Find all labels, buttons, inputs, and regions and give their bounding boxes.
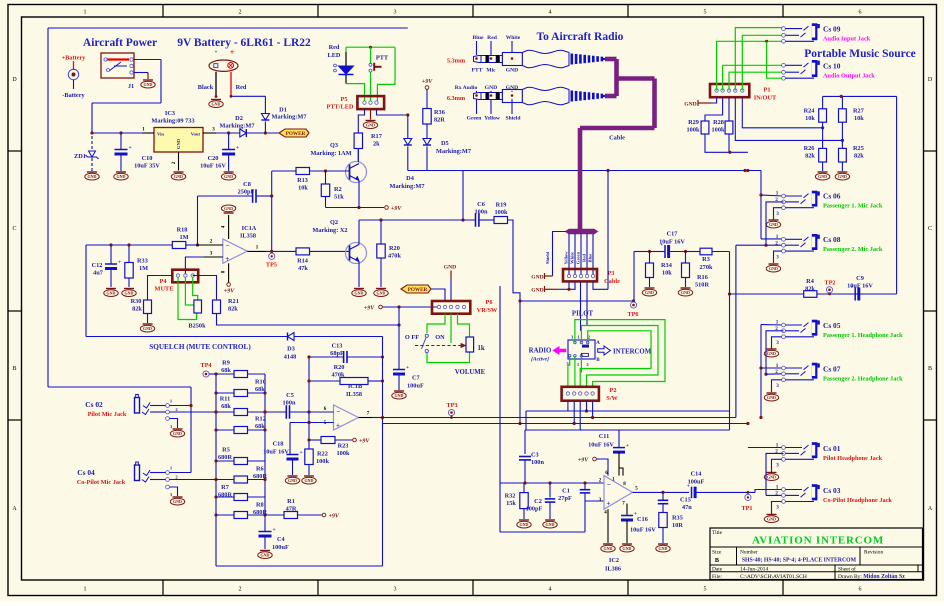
IC1A pin8 +9V (228, 263, 230, 282)
svg-text:ON: ON (435, 334, 445, 341)
svg-text:GND: GND (261, 553, 270, 558)
audio rail y=220 (359, 219, 475, 221)
svg-text:Marking: 1AM: Marking: 1AM (310, 150, 351, 157)
svg-text:Marking:M7: Marking:M7 (220, 123, 255, 130)
resistor R34 (649, 252, 651, 264)
svg-text:Cs 06: Cs 06 (823, 192, 841, 201)
svg-text:GND: GND (107, 291, 116, 296)
svg-text:−: − (607, 481, 611, 489)
svg-text:PILOT: PILOT (572, 311, 594, 318)
green wires P1 to music jacks (717, 41, 784, 90)
wire IC1A output (247, 250, 266, 252)
svg-text:D1: D1 (279, 107, 287, 114)
svg-text:SHS-40; HS-40; SP-4; 4-PLACE: SHS-40; HS-40; SP-4; 4-PLACE INTERCOM (742, 558, 857, 564)
svg-text:Sheet of: Sheet of (838, 566, 856, 573)
svg-text:IC3: IC3 (165, 110, 175, 117)
wires P3 pins34 down to switch (580, 282, 582, 331)
resistor R27 (841, 96, 843, 108)
svg-text:TP6: TP6 (627, 311, 638, 318)
svg-text:100pF: 100pF (526, 506, 543, 513)
svg-text:White: White (570, 252, 575, 264)
test point TP1 (746, 491, 749, 494)
diode D2 (240, 129, 247, 137)
svg-text:J1: J1 (128, 83, 134, 90)
svg-text:IC2: IC2 (609, 557, 619, 564)
svg-text:10uF 16V: 10uF 16V (200, 163, 226, 170)
wire P5 pin3 to PTT rail (377, 109, 408, 115)
svg-text:680R: 680R (218, 454, 232, 461)
svg-text:R14: R14 (297, 258, 309, 265)
wire green LED to P5 pin1 (346, 84, 365, 101)
svg-text:+: + (626, 443, 629, 449)
svg-text:100k: 100k (316, 458, 329, 465)
svg-text:IL358: IL358 (240, 233, 256, 240)
box bottom IC2 (500, 531, 585, 533)
svg-text:3: 3 (776, 463, 779, 469)
gnd label P1 pin1 (712, 97, 717, 103)
op-amp IC2 (604, 476, 633, 510)
ground C18 (288, 475, 298, 477)
wire right bus down to C9 line (896, 96, 898, 294)
svg-text:[Active]: [Active] (531, 357, 549, 363)
svg-text:10k: 10k (854, 115, 864, 122)
zener ZD1 (91, 136, 93, 150)
svg-text:GND: GND (173, 499, 182, 504)
squelch box bottom (216, 565, 383, 567)
svg-text:MUTE: MUTE (155, 286, 174, 293)
resistor R26 (819, 148, 827, 162)
wire C8 to R18 node (197, 196, 199, 245)
svg-text:B: B (596, 357, 600, 363)
svg-text:GND: GND (769, 266, 778, 271)
svg-text:1: 1 (776, 442, 779, 448)
ground Q2 (354, 288, 364, 290)
svg-text:D: D (12, 77, 17, 83)
ground C2 (545, 519, 555, 521)
svg-text:Cs 07: Cs 07 (823, 365, 841, 374)
ground C7 (394, 390, 404, 392)
wire Cs04 pin2 (170, 479, 217, 481)
wire Cs02 pin3 gnd (170, 419, 178, 429)
svg-text:9V Battery - 6LR61 - LR22: 9V Battery - 6LR61 - LR22 (177, 37, 311, 49)
wire rail drop to audio line (462, 171, 464, 221)
svg-text:1k: 1k (478, 345, 485, 352)
wire squelch out (383, 423, 748, 425)
svg-text:Red: Red (329, 44, 340, 51)
wire Q2 collector to audio rail (358, 220, 360, 245)
phone plug body (474, 56, 482, 63)
svg-text:Midon Zoltán Sz: Midon Zoltán Sz (863, 574, 905, 580)
svg-text:68k: 68k (221, 367, 231, 374)
svg-text:R32: R32 (505, 493, 516, 500)
wires P2 pins down (567, 401, 569, 411)
wire P1 pin4 to R27 net (735, 97, 842, 140)
svg-text:1M: 1M (179, 234, 188, 241)
border row ticks and letters (8, 150, 22, 152)
svg-text:R26: R26 (804, 145, 815, 152)
cable to radio (thick) (605, 57, 617, 62)
svg-text:R2: R2 (334, 186, 342, 193)
wire Cs04 pin3 gnd (170, 487, 178, 496)
ground ZD1 (87, 171, 97, 173)
resistor R13 (296, 168, 310, 175)
phone plug body (474, 93, 482, 100)
svg-text:+: + (687, 484, 690, 490)
wire R3 to headphone bus (712, 251, 730, 253)
svg-text:270k: 270k (700, 264, 713, 271)
wire Q2 emitter to ground (358, 262, 360, 287)
green P4 pot wires (178, 277, 197, 319)
svg-text:100k: 100k (495, 209, 508, 216)
wire R19 to radio path (508, 220, 521, 424)
svg-text:Red: Red (582, 254, 587, 262)
svg-text:C: C (12, 226, 16, 232)
svg-text:Vout: Vout (191, 132, 201, 137)
svg-text:68k: 68k (255, 386, 265, 393)
svg-text:R3: R3 (702, 256, 710, 263)
svg-text:Revision: Revision (864, 550, 883, 556)
svg-text:100uF: 100uF (407, 383, 424, 390)
capacitor C2 (549, 483, 551, 498)
svg-text:VR/SW: VR/SW (477, 307, 498, 314)
svg-text:10uF 16V: 10uF 16V (588, 442, 614, 449)
svg-text:Red: Red (236, 84, 247, 91)
svg-text:100k: 100k (712, 127, 725, 134)
wire IC1B output (359, 417, 373, 419)
svg-text:100n: 100n (531, 459, 544, 466)
svg-text:1: 1 (776, 319, 779, 325)
svg-text:6: 6 (859, 10, 862, 16)
dashed wiper link (415, 345, 461, 347)
svg-text:R9: R9 (222, 360, 230, 367)
svg-text:R20: R20 (389, 245, 400, 252)
wire rail to TP5 node (271, 171, 273, 251)
jack Cs 03 (755, 490, 784, 493)
svg-text:C18: C18 (273, 441, 284, 448)
svg-text:Portable Music Source: Portable Music Source (804, 48, 916, 60)
wire Cs03 pin3 gnd (772, 502, 782, 510)
connector P6 (432, 301, 470, 314)
resistor R20 (380, 220, 382, 244)
resistor R16 (685, 252, 687, 264)
+9V at Q3 (385, 206, 389, 210)
svg-text:1: 1 (776, 190, 779, 196)
svg-text:SQUELCH (MUTE CONTROL): SQUELCH (MUTE CONTROL) (149, 343, 251, 351)
green P6 switch loop (427, 314, 445, 333)
svg-text:10k: 10k (298, 185, 308, 192)
wire volume feed line (730, 293, 804, 295)
wire rail to passenger mic pin1 chain (760, 171, 762, 239)
svg-text:GND: GND (838, 174, 847, 179)
svg-text:P2: P2 (610, 387, 617, 394)
svg-text:Yellow: Yellow (564, 251, 569, 265)
wire green right leg to P5 pin3 (377, 47, 395, 101)
jack Cs 08 (761, 238, 784, 240)
jack Cs 02 plug (135, 398, 140, 414)
border column ticks and numbers (162, 5, 164, 18)
svg-text:+: + (225, 255, 229, 263)
svg-text:2: 2 (775, 491, 778, 497)
svg-text:GND: GND (224, 174, 233, 179)
svg-text:GND: GND (684, 102, 696, 108)
wire inverting bus (308, 357, 310, 450)
ground C16 (622, 543, 632, 545)
svg-text:+: + (406, 365, 409, 371)
svg-text:1M: 1M (139, 265, 148, 272)
wire green PTT to P5 pin2 (370, 72, 372, 101)
svg-text:C4: C4 (277, 536, 286, 543)
resistor R14 (296, 248, 310, 255)
wire +9V down to C7 (398, 307, 400, 370)
svg-text:TP1: TP1 (741, 505, 752, 512)
wire left box edge (499, 286, 501, 532)
switch S1 pilot (568, 340, 595, 359)
svg-text:4: 4 (549, 10, 552, 16)
svg-text:Vin: Vin (157, 132, 164, 137)
wire P4 pin1 left (148, 276, 173, 301)
wire battery minus to ground (215, 72, 217, 97)
wire J1 to IC3 (134, 59, 161, 61)
svg-text:PTT: PTT (376, 55, 389, 62)
wire Cs07 pin3 gnd (772, 380, 782, 387)
svg-text:IC1B: IC1B (348, 383, 363, 390)
green switch loops (575, 320, 665, 387)
svg-text:Marking:09 733: Marking:09 733 (151, 118, 194, 125)
svg-text:Co-Pilot Mic Jack: Co-Pilot Mic Jack (77, 479, 126, 486)
jack Cs 07 (761, 367, 784, 369)
svg-text:82k: 82k (805, 153, 815, 160)
svg-text:R33: R33 (137, 258, 148, 265)
resistor R32 (523, 483, 525, 493)
potentiometer B250k (194, 300, 202, 313)
wire main audio out (383, 417, 736, 419)
svg-text:100uF: 100uF (272, 544, 289, 551)
wire mic sum to pin6 (216, 411, 286, 413)
svg-text:+9V: +9V (364, 306, 375, 312)
ground C10 (116, 171, 126, 173)
svg-text:C: C (928, 226, 932, 232)
svg-text:Yellow: Yellow (484, 116, 501, 122)
svg-text:10k: 10k (805, 115, 815, 122)
resistor R25 (839, 148, 847, 162)
svg-text:S/W: S/W (606, 395, 618, 402)
svg-text:100n: 100n (475, 209, 488, 216)
svg-text:Date: Date (712, 567, 723, 573)
svg-text:+: + (118, 260, 121, 266)
svg-text:GND: GND (681, 290, 690, 295)
svg-text:+: + (607, 499, 611, 507)
capacitor C20 (228, 133, 230, 150)
resistor R4 (804, 291, 817, 298)
svg-text:51k: 51k (334, 194, 344, 201)
svg-text:Passenger 2. Mic Jack: Passenger 2. Mic Jack (823, 246, 883, 253)
svg-text:P6: P6 (486, 299, 493, 306)
wire IC2 pin4 gnd (607, 509, 609, 543)
wire battery plus (230, 72, 232, 97)
svg-text:D5: D5 (441, 140, 449, 147)
ground J1 (143, 79, 153, 81)
capacitor C4 (259, 531, 272, 533)
svg-text:Co-Pilot Headphone Jack: Co-Pilot Headphone Jack (823, 497, 892, 504)
svg-text:GND: GND (531, 288, 543, 294)
svg-text:Audio Output Jack: Audio Output Jack (823, 73, 875, 80)
title block frame (710, 528, 923, 580)
wire P5 pin2 to ground (370, 109, 372, 120)
svg-text:-Battery: -Battery (62, 92, 85, 99)
svg-text:Cs 04: Cs 04 (77, 468, 95, 477)
svg-text:R13: R13 (297, 177, 308, 184)
svg-text:R34: R34 (661, 262, 673, 269)
svg-text:PTT/LED: PTT/LED (327, 104, 354, 111)
svg-text:15k: 15k (506, 500, 516, 507)
wire pin3 line (585, 500, 604, 502)
wire Q3 collector (357, 149, 359, 163)
wire PTT power rail (408, 170, 761, 172)
capacitor C3 (524, 430, 526, 454)
wire P1 pin2 to R29 (705, 97, 723, 121)
diode D1 (264, 96, 266, 113)
svg-text:D4: D4 (406, 175, 415, 182)
svg-text:3: 3 (776, 211, 779, 217)
svg-text:−: − (226, 242, 230, 250)
potentiometer 1k (466, 337, 474, 352)
wire J1 pin3 to ground (134, 72, 148, 74)
svg-text:D2: D2 (235, 115, 243, 122)
ground R30 (143, 323, 153, 325)
ground battery (211, 99, 221, 101)
svg-text:GND: GND (377, 291, 386, 296)
ground IC3 (174, 171, 184, 173)
svg-text:IC1A: IC1A (242, 225, 257, 232)
svg-text:R11: R11 (220, 396, 231, 403)
svg-text:INTERCOM: INTERCOM (613, 349, 652, 356)
svg-text:GND: GND (767, 475, 776, 480)
wire pin2 chain Cs05 Cs07 (766, 331, 784, 374)
svg-text:R20: R20 (334, 364, 345, 371)
svg-text:GND: GND (88, 174, 97, 179)
svg-text:2: 2 (239, 10, 242, 16)
svg-text:1: 1 (776, 234, 779, 240)
ground R22 (304, 475, 314, 477)
svg-text:GND: GND (395, 393, 404, 398)
svg-text:Cs 09: Cs 09 (823, 25, 841, 34)
svg-text:10k: 10k (662, 270, 672, 277)
connector P4 (172, 270, 198, 283)
diode D5 (426, 124, 428, 139)
svg-text:+: + (660, 242, 663, 248)
svg-text:C9: C9 (856, 275, 864, 282)
svg-text:Cable: Cable (604, 278, 620, 285)
svg-text:Cable: Cable (609, 135, 625, 142)
svg-text:Cs 01: Cs 01 (823, 444, 841, 453)
svg-text:C8: C8 (243, 181, 251, 188)
svg-text:1: 1 (84, 10, 87, 16)
svg-text:3: 3 (776, 340, 779, 346)
svg-text:GND: GND (288, 478, 297, 483)
svg-text:GND: GND (144, 82, 153, 87)
wire R29 R28 junction to mic bus (705, 134, 748, 152)
wire P5 pin1 to R17 (358, 109, 364, 133)
svg-text:GND: GND (355, 291, 364, 296)
svg-text:Black: Black (198, 84, 214, 91)
connector P1 (710, 84, 749, 97)
svg-text:5.3mm: 5.3mm (447, 58, 466, 65)
svg-text:C13: C13 (332, 343, 343, 350)
svg-text:4148: 4148 (284, 354, 297, 361)
svg-text:+9V: +9V (422, 79, 433, 85)
wire Cs08 pin3 gnd (774, 251, 782, 258)
svg-text:R6: R6 (256, 466, 264, 473)
ground R32 (519, 519, 529, 521)
wire IC2 input node (500, 482, 604, 484)
svg-text:R36: R36 (434, 109, 445, 116)
svg-text:R35: R35 (672, 515, 683, 522)
wire P1 pin5 to R24 net (742, 97, 822, 128)
svg-text:Shield: Shield (506, 116, 522, 122)
svg-text:Shield: Shield (545, 251, 550, 264)
svg-text:B: B (12, 366, 16, 372)
resistor R2 (325, 171, 327, 184)
cable breakout wires (568, 234, 570, 274)
wire Cs01 pin3 gnd (772, 459, 782, 467)
svg-text:GND: GND (645, 290, 654, 295)
svg-text:10uF 16V: 10uF 16V (630, 527, 656, 534)
divider network top rail (823, 95, 897, 97)
wire pin2 chain Cs01 Cs03 (766, 453, 784, 495)
svg-text:GND: GND (212, 102, 221, 107)
svg-text:To Aircraft Radio: To Aircraft Radio (537, 31, 624, 43)
svg-text:2: 2 (775, 240, 778, 246)
svg-text:+9V: +9V (391, 206, 402, 212)
wire Cs05 pin3 gnd (772, 337, 782, 344)
svg-text:Pilot Headphone Jack: Pilot Headphone Jack (823, 455, 883, 462)
svg-text:82k: 82k (228, 306, 238, 313)
svg-text:100k: 100k (337, 450, 350, 457)
svg-text:+: + (336, 422, 340, 430)
svg-text:C:\ADV\SCH\AVIAT01.SCH: C:\ADV\SCH\AVIAT01.SCH (740, 574, 807, 580)
svg-text:5: 5 (704, 587, 707, 593)
svg-text:Drawn By:: Drawn By: (838, 574, 862, 580)
svg-text:RADIO: RADIO (529, 348, 552, 355)
arrow INTERCOM (598, 346, 611, 355)
svg-text:68k: 68k (221, 403, 231, 410)
svg-text:C15: C15 (680, 497, 691, 504)
wire IC1A pin3 to P4 (204, 256, 223, 258)
svg-text:-: - (215, 47, 218, 56)
svg-text:82k: 82k (854, 153, 864, 160)
svg-text:GND: GND (125, 291, 134, 296)
svg-text:Size: Size (712, 550, 722, 556)
svg-text:GND: GND (604, 546, 613, 551)
diode D4 (407, 115, 409, 139)
svg-text:C7: C7 (412, 375, 420, 382)
svg-text:IL386: IL386 (605, 566, 621, 573)
svg-text:10uF 16V: 10uF 16V (263, 449, 289, 456)
wire bus line A (526, 410, 730, 412)
resistor R17 (354, 133, 362, 149)
svg-text:GND: GND (520, 522, 529, 527)
svg-text:GND: GND (659, 546, 668, 551)
jack Cs 05 (782, 323, 786, 327)
svg-text:TP4: TP4 (200, 362, 212, 369)
svg-text:C2: C2 (534, 498, 542, 505)
svg-text:A: A (928, 506, 933, 512)
wire IC3 pin2 to ground (178, 152, 180, 171)
svg-text:GND: GND (767, 517, 776, 522)
svg-text:TP3: TP3 (446, 402, 457, 409)
svg-text:GND: GND (506, 68, 518, 74)
wire to TP1 (695, 491, 755, 493)
